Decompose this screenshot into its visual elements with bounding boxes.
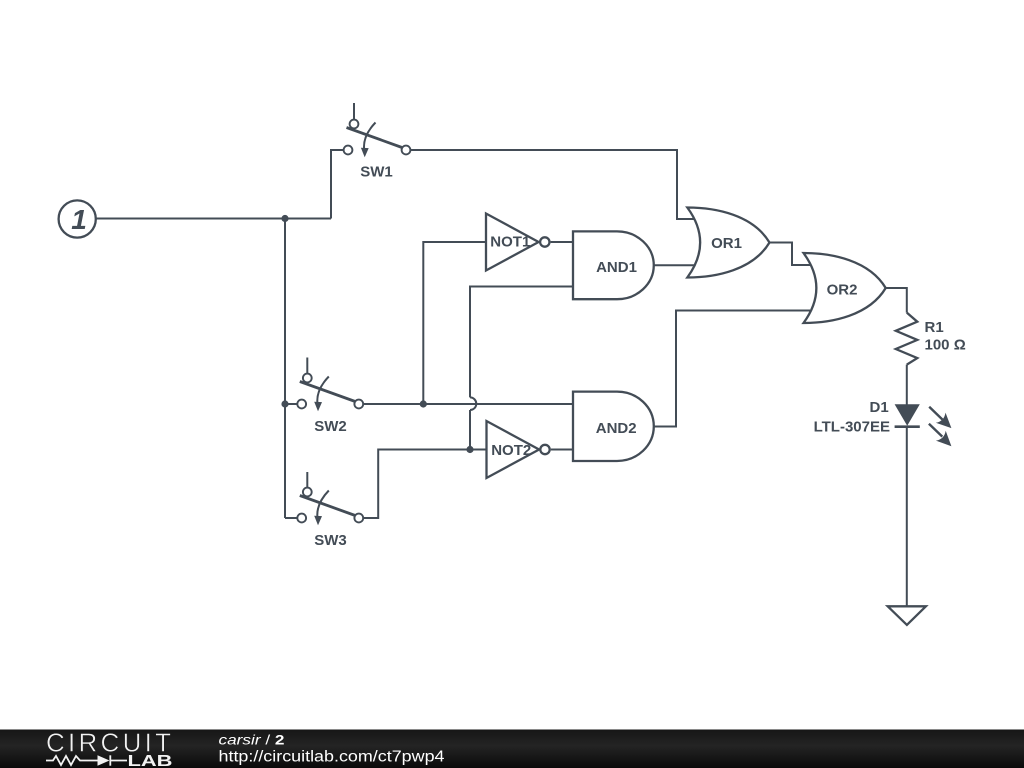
svg-text:AND1: AND1: [596, 259, 637, 276]
or-gate OR1: [687, 208, 769, 278]
svg-text:D1: D1: [870, 399, 889, 416]
svg-text:NOT1: NOT1: [490, 234, 530, 251]
diode D1 LED: [895, 404, 952, 446]
resistor R1: [896, 313, 918, 365]
wire junction up to SW1: [331, 150, 344, 219]
wire left vertical bus: [284, 219, 286, 519]
wire node1 to junction: [96, 218, 331, 220]
wire R1 to D1: [906, 365, 908, 405]
wire NOT1 output to AND1: [551, 241, 573, 243]
switch SW2: [297, 358, 363, 412]
wire AND1 lower input vertical: [470, 287, 573, 398]
svg-text:OR2: OR2: [827, 282, 858, 299]
wire D1 to ground: [906, 427, 908, 606]
wire SW1 to OR1 upper input: [410, 150, 695, 219]
wire SW3 to NOT2 input: [363, 450, 486, 519]
svg-text:http://circuitlab.com/ct7pwp4: http://circuitlab.com/ct7pwp4: [219, 749, 445, 766]
wire NOT2 output to AND2: [551, 449, 573, 451]
wire AND2 output to OR2 lower input: [654, 311, 810, 427]
node A junction dot: [281, 215, 288, 222]
logo resistor squiggle and diode: [46, 755, 127, 765]
svg-text:100 Ω: 100 Ω: [925, 337, 966, 354]
wire OR1 output to OR2 upper input: [769, 243, 810, 266]
node D junction dot NOT2 input: [466, 446, 473, 453]
svg-text:SW3: SW3: [314, 532, 347, 549]
inverter NOT2: [487, 421, 550, 478]
inverter NOT1: [486, 214, 550, 271]
wire to SW3 left terminal: [285, 517, 297, 519]
svg-text:1: 1: [71, 204, 87, 235]
wire AND1 output to OR1: [654, 264, 700, 266]
wire OR2 output to R1: [885, 288, 907, 313]
svg-text:OR1: OR1: [711, 235, 742, 252]
and-gate AND2: [573, 392, 654, 461]
svg-text:LAB: LAB: [128, 753, 173, 768]
node C junction dot SW2 row: [420, 400, 427, 407]
svg-text:LTL-307EE: LTL-307EE: [814, 419, 890, 436]
svg-text:NOT2: NOT2: [491, 442, 531, 459]
or-gate OR2: [804, 253, 886, 323]
wire vertical NOT1 feed: [423, 242, 486, 404]
svg-text:AND2: AND2: [596, 420, 637, 437]
wire to SW2 left terminal: [285, 403, 297, 405]
node B junction dot at SW2 row: [281, 400, 288, 407]
wire hop over horizontal: [470, 397, 476, 410]
switch SW3: [297, 472, 363, 525]
svg-text:R1: R1: [925, 319, 944, 336]
ground: [888, 606, 926, 625]
footer bar: [0, 730, 1024, 768]
svg-text:SW2: SW2: [314, 418, 347, 435]
svg-text:SW1: SW1: [360, 164, 393, 181]
svg-text:carsir / 2: carsir / 2: [219, 732, 285, 748]
wire SW2 to AND2 upper input: [363, 403, 573, 405]
and-gate AND1: [573, 231, 654, 299]
node 1 terminal: [59, 200, 96, 237]
switch SW1: [344, 103, 411, 157]
